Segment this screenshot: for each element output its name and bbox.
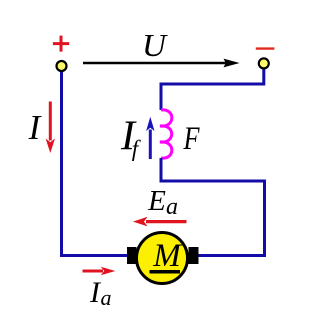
svg-text:f: f xyxy=(132,136,142,161)
terminal + (left) xyxy=(57,61,67,71)
svg-text:a: a xyxy=(101,285,112,310)
armature body xyxy=(137,233,188,284)
svg-text:M: M xyxy=(152,238,182,274)
wire coil bottom to armature right xyxy=(161,158,265,256)
brush left xyxy=(127,247,137,264)
minus symbol (-) xyxy=(256,47,275,49)
svg-text:I: I xyxy=(28,108,43,147)
wire left branch xyxy=(62,71,128,256)
field current arrow If xyxy=(146,117,154,159)
svg-text:a: a xyxy=(166,194,178,220)
svg-text:U: U xyxy=(142,27,168,63)
back-emf arrow Ea xyxy=(133,217,187,227)
voltage arrow U xyxy=(83,59,240,68)
terminal - (right) xyxy=(259,58,269,68)
motor armature M xyxy=(127,233,199,284)
brush right xyxy=(189,247,199,264)
wire top right to field coil xyxy=(161,69,264,111)
plus symbol (+) xyxy=(53,36,69,52)
svg-text:F: F xyxy=(183,121,200,157)
svg-text:E: E xyxy=(147,185,166,217)
underline of M xyxy=(150,270,181,274)
armature current arrow Ia xyxy=(83,267,116,276)
current arrow I xyxy=(46,102,55,154)
field winding F (coil) xyxy=(160,110,172,158)
